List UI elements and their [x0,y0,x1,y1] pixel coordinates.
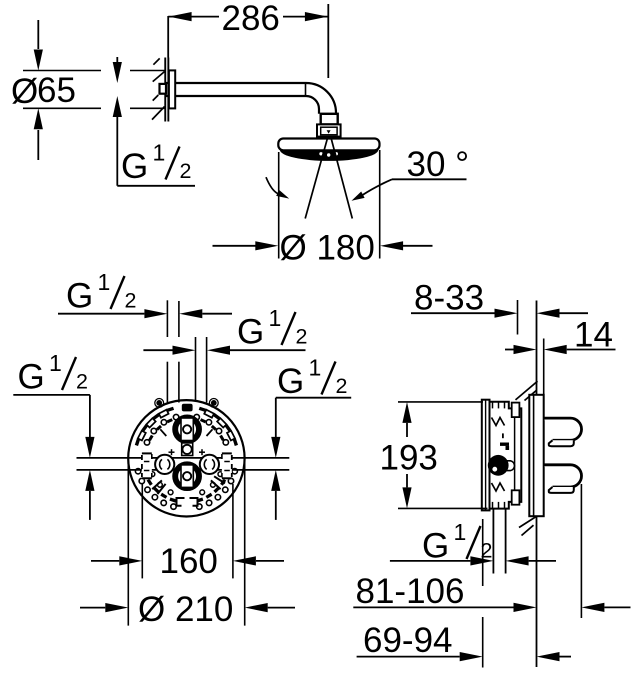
leader G1/2 right [276,397,351,399]
bottom outlet port lines [492,510,494,574]
mixer lower outlet ring [175,464,199,488]
top port extension line D [206,337,208,403]
shower head spray face [280,150,378,161]
dimension Ø65 arrow bottom [37,130,39,160]
mixer side tube lines [77,457,290,459]
mounting tab top [512,403,520,418]
dimension 286 line + arrows [168,16,219,18]
svg-text:14: 14 [574,316,613,355]
mixer fixing screw right [209,399,218,408]
arm elbow seam [305,83,307,96]
shower head body [278,139,379,151]
svg-text:Ø 180: Ø 180 [280,229,375,268]
mixer fixing screw left [155,399,164,408]
mixer upper outlet ring [175,417,199,441]
shower arm elbow [306,83,336,114]
label G1/2 mixer left [18,350,88,397]
arm diameter arrow bottom + leader to G1/2 [113,96,122,117]
dimension 286 extension line right (head centre) [327,4,329,78]
dimension 286 extension line left (wall plane) [167,16,169,58]
mixer hidden rear port left (dashed) [142,452,152,479]
top port extension line C [195,337,197,402]
protection plug [488,455,509,476]
dimension 8-33 extension line [517,300,519,335]
label G1/2 mixer right [277,355,347,402]
svg-text:Ø 210: Ø 210 [138,590,233,629]
wall hatch below plate [519,513,543,528]
top port extension line A [166,300,168,337]
dimension 193 extension lines [398,401,483,403]
mixer body circle [128,400,244,516]
mixer left valve port [155,455,174,474]
retainer clip bottom [492,483,505,491]
spindle boss [506,461,515,471]
wall line [536,301,538,395]
retainer clip top [492,418,505,426]
valve body mid line [514,417,516,490]
label G1/2 side view [422,519,492,566]
wall hatch above plate [516,381,538,400]
dimension Ø65 extension lines [23,70,101,72]
mixer right valve port [200,455,219,474]
spray angle arc arrow left [266,177,278,193]
in-wall thread nipple [160,84,167,94]
valve body rear cap [482,400,490,511]
dimension Ø180 extension lines [278,152,280,259]
socket end extension line [580,484,582,618]
dimension Ø210 extension lines [127,462,129,626]
wall plate (escutcheon edge-on) [164,58,166,122]
dimension 14 line + arrows [505,349,514,351]
arm diameter arrow top [116,57,118,63]
body top bar ribs [492,402,494,409]
cartridge tick [502,433,504,438]
spray cone line right [331,137,353,219]
connection socket upper [544,418,582,440]
dimension 81-106 line + arrows [353,606,513,608]
shower arm horizontal tube [165,82,306,84]
valve body outline [490,402,522,509]
body rear extension line [482,519,484,586]
mixer centre piece [182,443,193,456]
svg-text:69-94: 69-94 [363,621,453,660]
svg-text:65: 65 [37,71,76,110]
connection nut [321,114,338,125]
leader G1/2 left [13,394,90,396]
flange disc [169,70,175,108]
svg-text:30 °: 30 ° [407,145,470,184]
body bottom bar ribs [492,502,494,509]
connection socket lower [544,465,582,487]
dimension Ø210 line + arrows [80,607,105,609]
dimension 8-33 line + arrows [411,312,495,314]
dimension G1/2 top-left line + arrows [58,313,144,315]
wall hatch ticks at escutcheon [153,58,159,64]
dimension 160 line + arrows [91,560,119,562]
dimension 160 extension lines [141,484,143,578]
label G1/2 arm underline [117,185,195,187]
mixer hidden rear port right (dashed) [222,452,232,479]
dimension G1/2 top-right line + arrows [143,349,172,351]
dimension G1/2 side line + arrows [390,560,471,562]
ball joint housing [317,124,341,136]
svg-text:160: 160 [160,542,218,581]
dimension 193 line + arrows [406,423,408,437]
mounting tab bottom [512,490,520,504]
dimension 69-94 line + arrows [357,656,460,658]
mounting plate [529,395,543,516]
dimension Ø65 arrow top [37,20,39,49]
spray cone line left [305,137,328,219]
mixer top port opening [182,404,193,412]
spray angle leader with arrow [392,178,467,180]
cartridge stop block [500,443,509,446]
label G1/2 mixer top-left [66,269,136,316]
dimension 14 extension line (plate face) [543,339,545,395]
svg-text:81-106: 81-106 [356,572,465,611]
top port extension line B [178,301,180,337]
svg-text:8-33: 8-33 [414,279,484,318]
svg-text:Ø: Ø [11,72,38,111]
label G1/2 arm thread [121,140,191,187]
svg-text:286: 286 [222,0,280,38]
dimension Ø180 line + arrows [213,245,257,247]
svg-text:193: 193 [380,439,438,478]
label G1/2 mixer top-right [237,305,307,352]
mixer mounting ring detail speckle [227,431,235,441]
